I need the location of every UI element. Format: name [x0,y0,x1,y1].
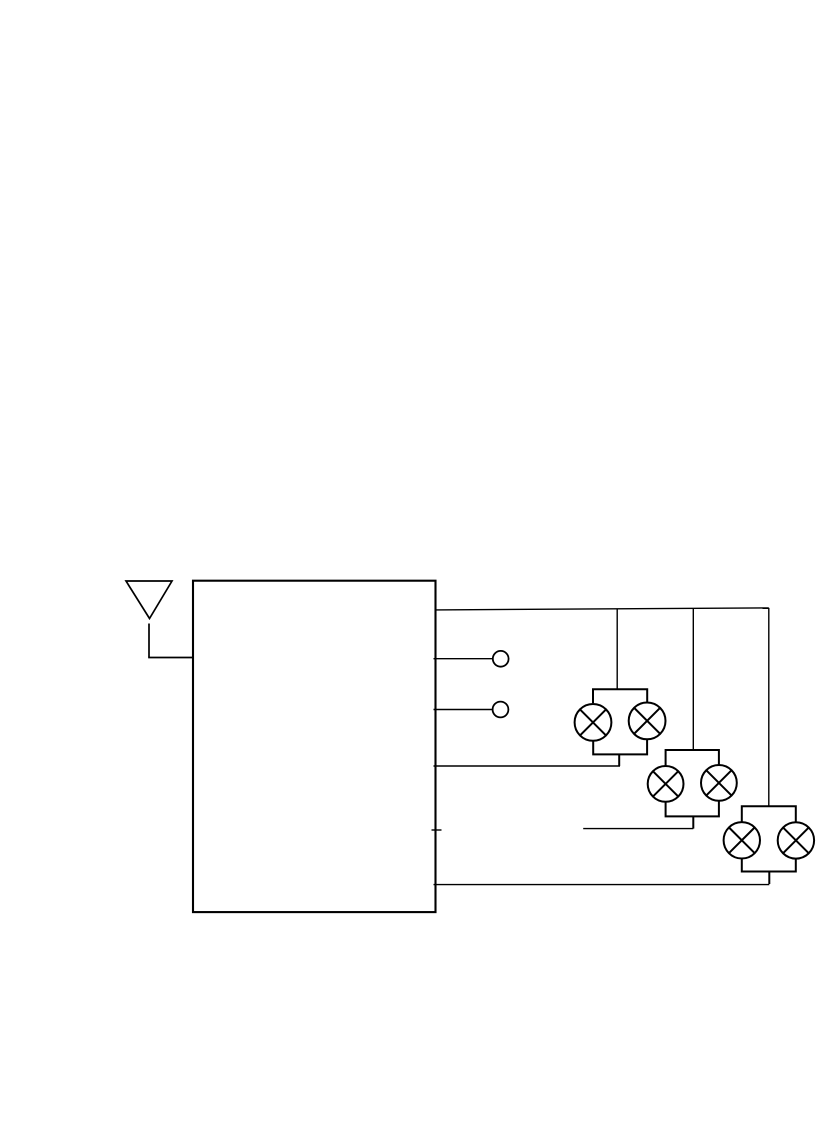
wire EL3 return to box [434,884,770,886]
wire antenna lead horizontal to box [148,657,193,659]
lamp group EL1 top bracket [593,689,647,703]
lamp group EL1 bottom bracket [593,739,647,754]
antenna ANT1 [126,581,172,619]
lamp group EL3 bottom bracket [742,858,796,871]
wire EL1 return to box [434,765,621,767]
lamp EL1b [629,703,666,740]
wire feed drop to lamp group EL3 [768,608,770,806]
receiver box U1 [193,581,436,912]
lamp EL3b [778,822,814,858]
lamp EL2b [701,765,737,801]
wire antenna lead vertical [148,624,150,658]
lamp group EL3 top bracket [742,806,796,822]
wire EL2 return segment [583,828,693,830]
wire EL3 output stub [768,872,770,885]
wire feed drop to lamp group EL1 [616,609,618,690]
wire EL2 output stub [692,816,694,828]
lamp EL3a [724,822,760,858]
lamp group EL2 top bracket [666,750,719,766]
lamp EL1a [575,704,612,741]
lamp EL2a [648,766,684,802]
terminal X1 [493,651,509,667]
wire pin stub to terminal X2 [434,709,493,711]
terminal X2 [493,702,509,718]
wire pin stub on box for EL2 return [432,829,442,831]
wire pin stub to terminal X1 [434,658,493,660]
wire EL1 output stub [618,754,620,766]
lamp group EL2 bottom bracket [666,801,719,817]
wire top supply rail [436,608,769,610]
wire feed drop to lamp group EL2 [692,609,694,751]
